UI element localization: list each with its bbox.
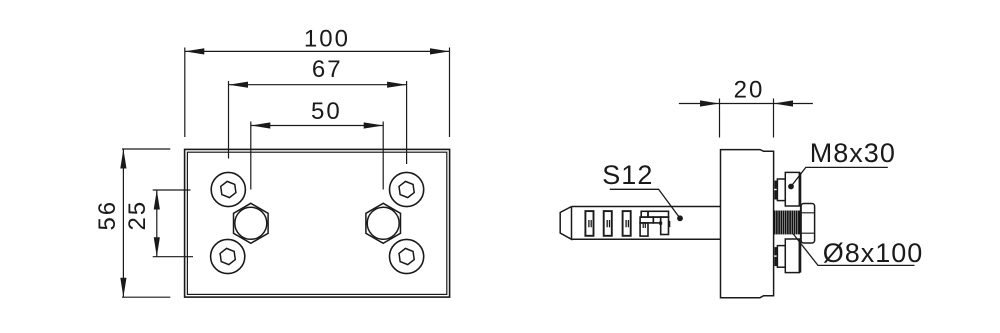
dim 56 line (122, 149, 124, 297)
expansion lock top bar (648, 211, 669, 217)
leader dot S12 (677, 215, 683, 221)
hex nut right inscribed circle (367, 207, 399, 239)
hex socket bottom-left (220, 247, 236, 265)
dim 100 line (185, 50, 450, 52)
screw head top M8x30 (785, 172, 799, 206)
screw head top-right circle (390, 172, 424, 206)
svg-text:25: 25 (124, 200, 151, 231)
hex socket top-right (398, 180, 414, 198)
anchor sleeve slot 1 ticks (589, 220, 591, 227)
extension line 25 bottom (153, 256, 193, 258)
screw head bottom-right circle (390, 239, 424, 273)
extension line 25 top (153, 189, 191, 191)
dim 25 line (156, 190, 158, 257)
leaders and labels (610, 167, 915, 265)
plate front view outer rectangle (185, 149, 450, 297)
hex nut chamfer lines (801, 213, 815, 233)
extension line 50 left (250, 122, 252, 190)
arrow 50 left (251, 122, 270, 128)
expansion lock right column (661, 217, 669, 234)
extension line 20 right (773, 99, 775, 138)
extension line 20 left (719, 99, 721, 138)
svg-text:S12: S12 (602, 160, 653, 190)
arrow 50 right (364, 122, 384, 128)
hex nut right front view (366, 203, 401, 243)
expansion lock bottom-left ticks (643, 223, 645, 228)
extension line 56 top (122, 148, 170, 150)
head/thread right boundary line (800, 172, 802, 272)
dimension texts (94, 26, 764, 231)
plate side view profile (721, 150, 774, 298)
expansion lock mid band right (653, 217, 660, 223)
arrow 25 bottom (154, 237, 160, 257)
dim 67 line (229, 84, 407, 86)
extension line 67 left (228, 81, 230, 159)
hex socket top-left (220, 180, 236, 198)
anchor sleeve slot 2 ticks (607, 220, 609, 227)
svg-text:M8x30: M8x30 (810, 138, 896, 168)
anchor sleeve slot 2 (604, 211, 612, 236)
extension line 56 bottom (122, 296, 170, 298)
dim 20 line (679, 103, 813, 105)
flat washer bottom (777, 246, 785, 268)
expansion lock mid band left (640, 217, 653, 223)
threaded rod stub (774, 211, 801, 235)
arrow 67 left (229, 82, 249, 88)
svg-text:67: 67 (312, 56, 343, 83)
extension line 100 left (184, 48, 186, 138)
hex nut left inscribed circle (235, 207, 267, 239)
hex socket bottom-right (398, 247, 414, 265)
leader M8x30 (791, 167, 888, 186)
right side assembly (774, 172, 815, 272)
extension line 67 right (406, 81, 408, 164)
anchor rod tip chamfer (560, 207, 571, 240)
leader dot M8x30 (788, 184, 794, 190)
screw head bottom-left circle (211, 239, 245, 273)
extension line 100 right (449, 48, 451, 138)
hex nut side view (801, 204, 815, 244)
svg-text:100: 100 (304, 26, 350, 53)
arrow 67 right (387, 82, 407, 88)
svg-text:50: 50 (311, 98, 342, 125)
screw head top-left circle (211, 172, 245, 206)
svg-text:56: 56 (94, 200, 121, 231)
arrow 20 left outside (700, 100, 720, 106)
anchor sleeve slot 3 ticks (626, 220, 628, 227)
expansion lock top-left small rect (641, 211, 648, 217)
arrow 100 right (430, 48, 450, 54)
spring washer top (black) (775, 181, 778, 200)
dimension lines group (122, 48, 813, 298)
arrow 20 right outside (774, 100, 794, 106)
side view (560, 150, 773, 298)
expansion lock right pin tick (669, 221, 671, 227)
spring washer bottom (black) (775, 247, 778, 266)
screw head bottom M8x30 (785, 239, 799, 273)
plate front view inner rectangle (187, 152, 446, 294)
svg-text:20: 20 (734, 76, 765, 103)
expansion lock black square (659, 222, 662, 225)
anchor sleeve slot 3 (623, 211, 631, 236)
flat washer top (777, 179, 785, 201)
arrow 25 top (154, 190, 160, 210)
arrow 56 top (120, 149, 126, 169)
arrows (120, 48, 793, 297)
leader S12 (610, 189, 680, 218)
expansion lock bottom-left column (640, 223, 648, 236)
anchor sleeve slot 1 (585, 211, 593, 236)
extension line 50 right (382, 122, 384, 190)
hex nut left front view (234, 203, 269, 243)
leader Ø8x100 (793, 234, 914, 266)
arrow 56 bottom (120, 278, 126, 298)
anchor rod body (572, 207, 721, 240)
dim 50 line (251, 125, 383, 127)
svg-text:Ø8x100: Ø8x100 (823, 238, 924, 268)
arrow 100 left (185, 48, 205, 54)
